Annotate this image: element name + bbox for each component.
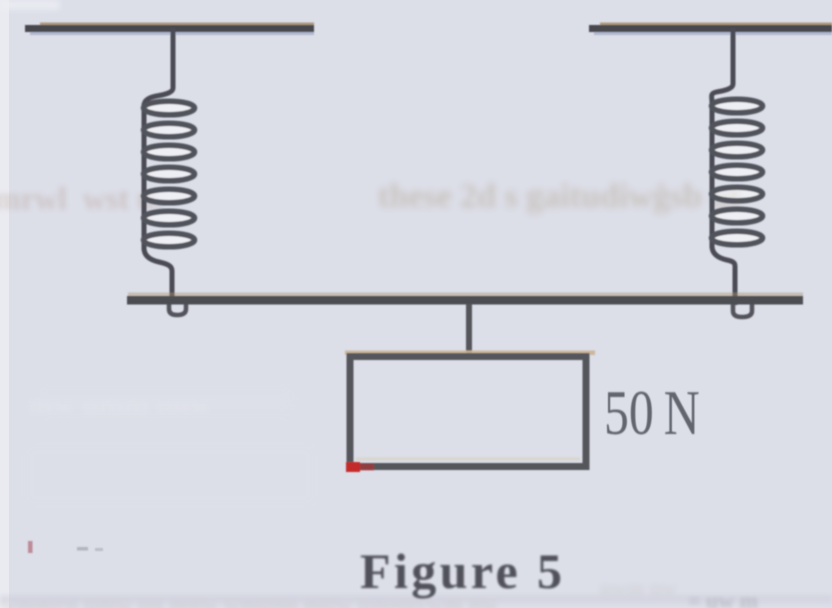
ceiling left (blue lower fringe) [30,32,314,35]
wire: left spring top hanger [144,28,173,106]
wire: right spring top hanger [712,28,733,102]
horizontal bar [127,296,803,305]
faint bleed-through text band upper [0,180,163,217]
left spring coil loops [144,101,195,247]
ceiling right (dark core) [589,25,832,32]
box tan top highlight [345,351,595,356]
faint bottom streak text [0,595,832,603]
ceiling left (dark core) [25,25,314,32]
right spring coil loops [712,99,763,245]
right hook loop on bar [733,300,752,317]
weight box [350,357,586,467]
left edge lighter band [0,0,9,608]
box interior cream line above bottom edge [356,458,580,461]
small red tick left [28,541,33,553]
faint bleed-through text band lower-left [28,388,211,422]
small gray dashes [77,547,88,551]
horizontal bar tan top fringe [128,293,803,297]
Figure 5 caption [360,542,565,600]
wire: right spring bottom hanger [712,246,735,305]
center hanger wire to box [466,304,472,358]
ceiling right (tan top fringe) [600,23,832,26]
wire: right spring rail [710,100,715,248]
left hook loop on bar [169,300,186,315]
ceiling left (tan top fringe) [40,23,314,26]
wire: left spring rail [142,104,147,250]
50N label [604,377,700,450]
wire: left spring bottom hanger [144,248,172,303]
ceiling right (blue lower fringe) [594,32,832,35]
red mark at box bottom-left corner [346,462,360,472]
faint light blobs [30,385,300,419]
